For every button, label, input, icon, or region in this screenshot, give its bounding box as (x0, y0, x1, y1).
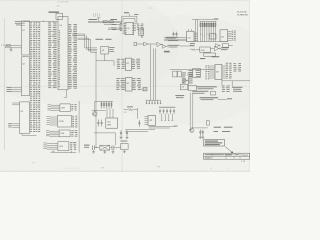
caps label row mid (159, 109, 175, 114)
small comp C50 (206, 121, 209, 125)
IC U6 body (59, 130, 70, 137)
IC U4 left label ladder (48, 22, 56, 88)
U8 right labels (109, 46, 114, 49)
mid cluster bottom wires (149, 125, 176, 127)
Q1 wires (92, 109, 106, 111)
U16 right ladder (232, 31, 236, 41)
ground xtal2 (103, 150, 106, 153)
bottom-mid wires (125, 129, 155, 131)
U10 left wires (104, 24, 123, 26)
gate box pair (173, 71, 177, 77)
IC U1 pin ladder names (30, 22, 35, 132)
IC U4 inner pin ticks (58, 30, 60, 87)
transistor Q2 (190, 128, 194, 132)
svg-text:U23: U23 (149, 120, 152, 122)
U2 bottom wire (22, 134, 37, 136)
caps label blobs (159, 106, 176, 109)
svg-text:U10: U10 (127, 28, 130, 30)
title block mid line (204, 156, 250, 158)
xtal top wire (94, 132, 116, 134)
IC U2 left stubs (12, 103, 19, 127)
IC U16 ROM body (220, 30, 228, 42)
ROM wire labels (166, 36, 178, 39)
IC U7 right ladder (70, 142, 76, 150)
bottom row labels A (197, 86, 217, 87)
U10 left stubs (123, 24, 125, 34)
notes box (204, 140, 225, 147)
gate U11 wires (137, 43, 144, 45)
connector wire (141, 88, 143, 90)
left mid row labels (7, 86, 12, 89)
RN1 resistors (200, 22, 216, 30)
paper crease horizontal (0, 86, 250, 87)
arrow to title block (225, 147, 232, 153)
title row2 text (205, 157, 211, 158)
svg-text:1: 1 (227, 168, 228, 170)
svg-text:U19: U19 (216, 72, 219, 74)
scan shading wash top-left (0, 0, 180, 105)
IC U6 left stubs (46, 130, 59, 136)
svg-text:U12: U12 (126, 63, 129, 65)
mid L wire (96, 61, 114, 66)
ground reset (10, 48, 13, 51)
latch box (204, 53, 216, 56)
pullups RP2 rail (101, 100, 114, 102)
caps pair right of CB (172, 32, 174, 36)
IC U5 right ladder (72, 116, 77, 128)
top mid bus (88, 20, 122, 22)
U19 right ladder (226, 63, 232, 79)
bus verticals (84, 34, 86, 48)
IC U23 body (148, 116, 156, 126)
IC U13 right labels (133, 78, 141, 90)
title block columns (212, 153, 240, 159)
pullup resistor array RN1 rail (199, 21, 216, 23)
IC U4 body (60, 104, 70, 112)
long vertical wire right of E (150, 44, 152, 101)
U23 left stubs (144, 117, 148, 125)
RN1 +5V label (214, 19, 219, 20)
U2 stub labels (8, 122, 12, 125)
caps row (146, 100, 161, 104)
caps left of U23 (138, 120, 140, 127)
decode gate A (162, 45, 166, 49)
svg-text:U17: U17 (182, 87, 185, 89)
R5 wires (190, 49, 191, 51)
IC U4 body (58, 17, 68, 90)
bus vertical joins (85, 47, 97, 49)
svg-text:4MHz: 4MHz (107, 124, 111, 126)
svg-text:U8: U8 (102, 50, 104, 52)
U16 right stubs (228, 31, 232, 40)
stub labels U1 (15, 20, 21, 23)
caps pair top right (120, 130, 122, 135)
svg-text:U16: U16 (221, 37, 224, 39)
long verticals mid-right (153, 49, 155, 101)
svg-text:LS74: LS74 (59, 146, 63, 148)
svg-text:2-12 SYSTEM: 2-12 SYSTEM (57, 1, 69, 3)
svg-text:U3: U3 (21, 111, 23, 113)
page bottom edge shade (0, 171, 250, 172)
labels bottom right 2 (214, 130, 218, 133)
IC U1b body (22, 57, 30, 96)
caps near osc (97, 120, 99, 127)
horizontal wire mid-right (170, 69, 214, 71)
R3 wire (133, 109, 137, 111)
IC U1 body upper (22, 21, 30, 55)
S-chip bus wire vertical (78, 101, 80, 153)
reset circuit wires (6, 44, 22, 46)
row2 right label (221, 46, 229, 49)
svg-text:LS42: LS42 (201, 50, 205, 52)
IC U5 body (57, 115, 71, 127)
extra labels right of D (134, 13, 138, 16)
U10 far left labels (112, 23, 117, 26)
label under chain (164, 51, 170, 53)
blob right cluster (232, 87, 242, 88)
caps row rail (146, 99, 161, 101)
gate U11 (144, 42, 148, 46)
svg-text:LS04: LS04 (60, 133, 64, 135)
bus wires B-to-mid horizontals (72, 33, 85, 35)
U10 right stubs (134, 24, 137, 31)
text rows right (175, 95, 184, 96)
RP2 resistors (101, 101, 112, 108)
gate cluster texture (182, 73, 193, 84)
svg-text:U2: U2 (22, 64, 24, 66)
IC U2 body lower (20, 102, 30, 134)
chain gate B with bubble (216, 44, 220, 48)
U10 top stub (128, 14, 130, 17)
series resistor RP1b (109, 21, 113, 23)
gate IC U8 body (101, 46, 109, 54)
left margin frame line (4, 18, 6, 150)
U10 top label (124, 12, 129, 13)
row2 wire (210, 48, 214, 50)
fold mark bottom-left (32, 162, 35, 163)
RP2-to-osc verticals (106, 109, 108, 118)
svg-text:U1: U1 (22, 30, 24, 32)
page right edge shade (249, 0, 250, 172)
IC U3 top label text (49, 11, 60, 13)
fold mark bottom-mid (101, 167, 104, 168)
IC U1 top-left stubs (22, 22, 25, 25)
chain box B (223, 44, 229, 48)
bottom row labels B (192, 90, 208, 93)
labels bottom right 1 (214, 127, 221, 128)
IC U13 body (125, 78, 132, 91)
connector J1 (143, 88, 147, 91)
IC U19 left ladder (205, 66, 209, 80)
box bottom row A (189, 86, 197, 91)
box bottom row B (210, 91, 215, 95)
revision wire label (227, 98, 232, 99)
gate cluster shapes (183, 79, 187, 83)
box below cluster (181, 84, 188, 90)
xtal Y1 box (100, 145, 110, 150)
bus T stub (98, 18, 100, 21)
IC U7 left stubs (43, 143, 58, 150)
component box above U3 (56, 13, 63, 19)
notes text (205, 140, 218, 143)
IC U4 right ladder (71, 104, 76, 110)
RN1 top rail wire (192, 18, 213, 20)
svg-text:2-15: 2-15 (123, 112, 126, 114)
IC U1 pin ladder numbers (36, 22, 40, 132)
row2 gate (214, 46, 219, 51)
decode chain row1 wires (161, 43, 162, 45)
wire right edge (222, 80, 250, 82)
resistor R5 zigzag (191, 49, 196, 51)
faint ticks above (94, 13, 100, 17)
bottom faint smudge (63, 168, 79, 170)
bottom rail wire (51, 152, 77, 154)
decode gate bubble A (157, 42, 161, 46)
oscillator box U22 (106, 118, 118, 128)
scan shading wash mid-right (95, 15, 275, 125)
svg-text:LS32: LS32 (61, 108, 65, 110)
U19 right stubs (222, 66, 226, 78)
IC U5 left stubs (47, 116, 58, 125)
wires to ROM labels (164, 37, 187, 39)
IC U19 body (215, 65, 222, 80)
IC U7 body (58, 142, 69, 151)
svg-text:2-14: 2-14 (1, 45, 4, 47)
svg-text:4: 4 (211, 168, 212, 170)
xtal wires (94, 147, 100, 149)
chain box left (134, 42, 137, 46)
U3 bottom wire (64, 90, 67, 98)
IC U4 left stubs (48, 104, 60, 110)
revision label row (200, 97, 219, 98)
U14 top stubs (188, 29, 190, 31)
chain labels 1 (168, 44, 180, 47)
left mid signal rows (11, 87, 22, 89)
ground xtal1 (92, 150, 95, 153)
series resistor RP1a (103, 21, 107, 23)
caps verticals down (161, 114, 173, 121)
wire bottom right row (191, 127, 208, 129)
svg-text:U4: U4 (60, 25, 62, 27)
title block table (204, 153, 250, 159)
connector CB hatched (139, 29, 144, 36)
small box U15 (210, 34, 217, 39)
IC U10 left labels (119, 23, 122, 31)
page top edge shade (0, 0, 250, 1)
fold mark bottom-mid2 (157, 166, 160, 167)
F bottom stub labels (190, 42, 195, 45)
top-right verticals (195, 19, 197, 41)
U10 right labels ladder (137, 24, 144, 30)
IC U14 ROM body (187, 31, 194, 42)
IC U10 body (125, 22, 134, 34)
mid vertical wire (95, 52, 97, 132)
decoder box U13 (200, 47, 211, 52)
collector wire (190, 41, 228, 43)
trimmer label (120, 140, 127, 143)
title row1 text (205, 154, 224, 155)
svg-text:SCHEM 8B: SCHEM 8B (237, 14, 248, 16)
svg-text:U14: U14 (188, 38, 191, 40)
resistor R3 (128, 109, 133, 111)
title row1 text ext (225, 154, 232, 155)
U10 inner ticks (125, 23, 126, 34)
junction node (10, 47, 11, 48)
CB bottom wires (140, 35, 142, 38)
RN1 bottom verticals (201, 30, 216, 42)
verticals into bottom rows (188, 77, 190, 86)
ground caps pair (120, 135, 123, 138)
cap C10 (92, 145, 94, 150)
U19 left stubs (210, 66, 215, 78)
ground xtal3 (112, 150, 115, 153)
IC U4 right pin ladder (68, 24, 77, 89)
fold mark top (57, 5, 60, 6)
long vertical wire 2 (136, 108, 138, 119)
U14 right stubs (194, 33, 198, 40)
xtal verticals (95, 133, 97, 148)
IC U20 label rows (234, 63, 242, 71)
svg-text:26-1051 A: 26-1051 A (237, 11, 247, 14)
RP2 rail extend (95, 100, 101, 102)
trimmer box (121, 144, 128, 150)
IC U12 right labels (132, 59, 140, 69)
U18 top labels (200, 58, 205, 59)
chain wire right (228, 44, 232, 46)
IC U12 left labels (117, 59, 125, 69)
U8 bottom vertical (104, 54, 106, 61)
R3 label (127, 105, 133, 108)
wire top bus A (24, 21, 57, 23)
revision wire (218, 99, 227, 101)
svg-text:LS138: LS138 (59, 121, 64, 123)
reset resistor R1 (7, 44, 11, 46)
ground trimmer (123, 150, 126, 153)
xtal label text (84, 145, 90, 146)
IC U18 body (193, 69, 201, 77)
IC U6 right ladder (71, 130, 77, 136)
fold mark top-mid (149, 8, 152, 9)
bottom wire label (174, 125, 178, 128)
label row above U8 (96, 39, 104, 40)
U18 texture rows (189, 70, 200, 77)
bus labels above (89, 19, 98, 20)
paper crease vertical (121, 0, 123, 172)
junction dots RN (200, 34, 216, 37)
U10 top frame wires (122, 15, 137, 17)
long verticals bottom right (189, 93, 191, 131)
caps bottom right (199, 130, 201, 136)
IC U21 ladder (222, 86, 230, 92)
IC U13 left labels (116, 78, 124, 90)
IC U12 body (125, 58, 131, 70)
cap C11 (111, 145, 113, 150)
svg-text:U13: U13 (126, 83, 129, 85)
transistor Q1 (93, 112, 98, 117)
ground caps br (199, 135, 202, 138)
svg-text:TRS-80: TRS-80 (241, 155, 249, 157)
